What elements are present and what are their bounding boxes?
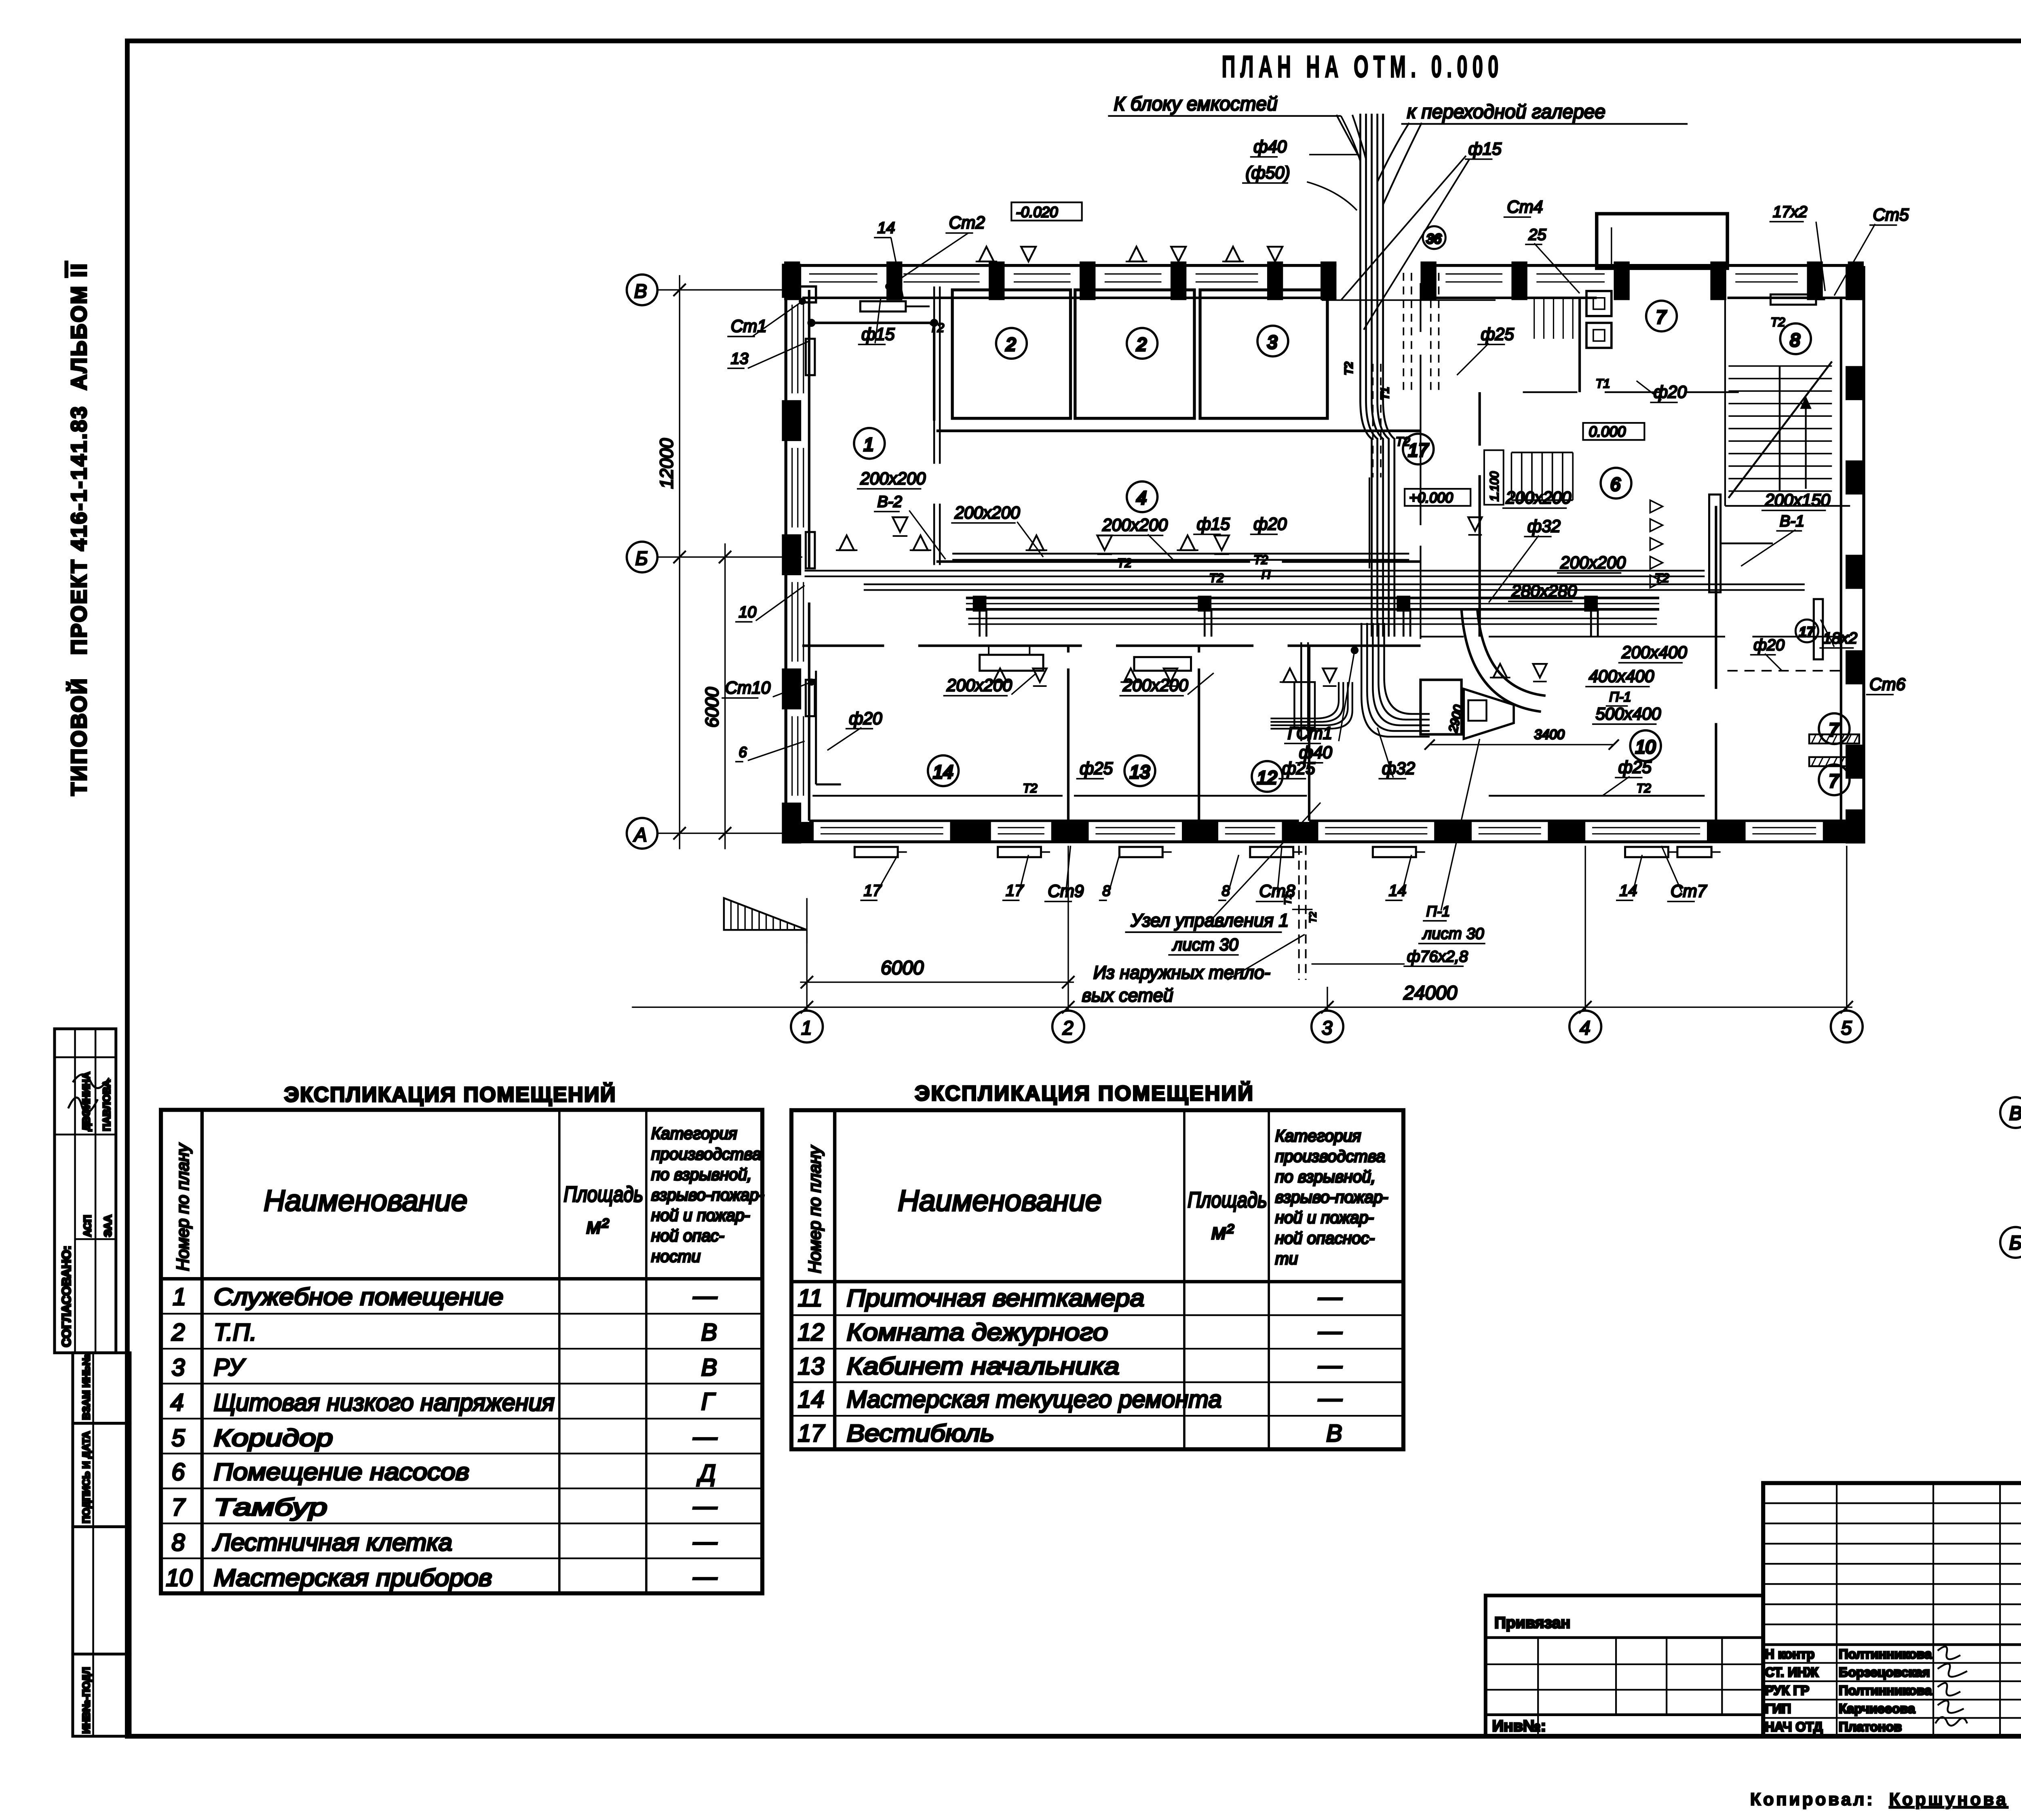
svg-text:200х200: 200х200 bbox=[860, 469, 926, 488]
svg-text:3: 3 bbox=[172, 1354, 185, 1381]
svg-text:4: 4 bbox=[1580, 1018, 1591, 1039]
svg-text:4: 4 bbox=[171, 1389, 184, 1416]
svg-text:7: 7 bbox=[172, 1494, 186, 1520]
svg-text:РУ: РУ bbox=[214, 1354, 246, 1381]
svg-text:Т2: Т2 bbox=[1117, 556, 1132, 570]
svg-text:—: — bbox=[693, 1493, 717, 1520]
svg-text:Т.П.: Т.П. bbox=[214, 1319, 257, 1345]
svg-text:А: А bbox=[633, 824, 647, 846]
svg-text:1: 1 bbox=[173, 1284, 186, 1310]
svg-text:Привязан: Привязан bbox=[1494, 1614, 1570, 1632]
svg-text:НАЧ ОТД: НАЧ ОТД bbox=[1765, 1720, 1823, 1734]
svg-text:2: 2 bbox=[1005, 334, 1016, 355]
svg-text:Ст10: Ст10 bbox=[725, 678, 771, 697]
svg-text:200х150: 200х150 bbox=[1764, 490, 1830, 509]
svg-text:П: П bbox=[1262, 567, 1271, 581]
svg-text:Номер по плану: Номер по плану bbox=[173, 1142, 192, 1271]
svg-text:Полтинникова: Полтинникова bbox=[1839, 1647, 1932, 1662]
svg-text:200х200: 200х200 bbox=[1122, 676, 1188, 695]
svg-text:10: 10 bbox=[1635, 737, 1656, 757]
svg-text:лист 30: лист 30 bbox=[1422, 925, 1484, 943]
svg-text:ной опас-: ной опас- bbox=[651, 1227, 724, 1245]
svg-text:+0.000: +0.000 bbox=[1409, 490, 1453, 506]
svg-text:—: — bbox=[693, 1423, 717, 1450]
svg-text:Т2: Т2 bbox=[1637, 781, 1651, 795]
svg-text:Т2: Т2 bbox=[1655, 571, 1669, 585]
svg-text:Ст5: Ст5 bbox=[1873, 205, 1909, 224]
svg-text:12: 12 bbox=[798, 1319, 825, 1345]
svg-text:200х400: 200х400 bbox=[1621, 643, 1687, 662]
svg-text:500х400: 500х400 bbox=[1595, 704, 1661, 723]
svg-text:Узел управления 1: Узел управления 1 bbox=[1131, 910, 1289, 931]
svg-text:280х280: 280х280 bbox=[1511, 581, 1577, 600]
svg-text:Д: Д bbox=[696, 1460, 716, 1486]
svg-text:ф20: ф20 bbox=[1753, 636, 1785, 654]
svg-text:0.000: 0.000 bbox=[1589, 423, 1626, 440]
svg-text:200х200: 200х200 bbox=[1560, 553, 1626, 572]
svg-text:5: 5 bbox=[172, 1425, 185, 1451]
svg-text:РУК ГР: РУК ГР bbox=[1765, 1683, 1809, 1698]
svg-text:Платонов: Платонов bbox=[1839, 1720, 1902, 1734]
svg-text:17: 17 bbox=[798, 1420, 825, 1447]
svg-text:производства: производства bbox=[1275, 1147, 1385, 1165]
svg-text:17: 17 bbox=[1799, 625, 1815, 640]
svg-text:П-1: П-1 bbox=[1609, 689, 1631, 705]
svg-text:14: 14 bbox=[933, 762, 953, 782]
svg-text:Карчиееова: Карчиееова bbox=[1839, 1702, 1916, 1716]
svg-text:В: В bbox=[701, 1354, 717, 1381]
svg-text:Б: Б bbox=[635, 548, 648, 570]
svg-text:Т2: Т2 bbox=[1396, 434, 1410, 448]
svg-text:по взрывной,: по взрывной, bbox=[651, 1165, 752, 1184]
svg-text:—: — bbox=[1318, 1385, 1342, 1411]
svg-text:Категория: Категория bbox=[1275, 1126, 1361, 1145]
svg-text:11: 11 bbox=[798, 1285, 823, 1311]
svg-text:3400: 3400 bbox=[1534, 727, 1565, 742]
svg-text:12000: 12000 bbox=[656, 438, 677, 489]
svg-text:13: 13 bbox=[1130, 762, 1150, 782]
svg-text:ф15: ф15 bbox=[1468, 139, 1502, 158]
svg-text:Мастерская текущего ремонта: Мастерская текущего ремонта bbox=[847, 1386, 1222, 1413]
svg-text:17: 17 bbox=[1408, 440, 1429, 460]
svg-text:ИНВ№-ПОДЛ: ИНВ№-ПОДЛ bbox=[81, 1667, 92, 1734]
svg-text:Т1: Т1 bbox=[1283, 893, 1293, 905]
svg-text:В: В bbox=[2009, 1103, 2021, 1124]
svg-text:Площадь: Площадь bbox=[1188, 1188, 1267, 1212]
svg-text:—: — bbox=[693, 1528, 717, 1555]
svg-text:10: 10 bbox=[739, 603, 757, 621]
svg-text:8: 8 bbox=[1790, 329, 1800, 350]
svg-text:Приточная венткамера: Приточная венткамера bbox=[847, 1285, 1145, 1311]
svg-text:ф25: ф25 bbox=[1481, 325, 1514, 344]
svg-text:вых сетей: вых сетей bbox=[1082, 985, 1173, 1005]
svg-text:ной и пожар-: ной и пожар- bbox=[651, 1206, 750, 1225]
svg-text:Наименование: Наименование bbox=[898, 1184, 1101, 1217]
svg-text:13: 13 bbox=[798, 1353, 825, 1380]
svg-text:СТ. ИНЖ: СТ. ИНЖ bbox=[1765, 1665, 1818, 1680]
svg-text:14: 14 bbox=[878, 219, 895, 236]
svg-text:14: 14 bbox=[798, 1386, 825, 1413]
svg-text:Копировал: Коршунова: Копировал: Коршунова bbox=[1750, 1790, 2008, 1809]
svg-text:Н контр: Н контр bbox=[1765, 1647, 1814, 1662]
svg-text:2: 2 bbox=[1062, 1018, 1074, 1039]
svg-text:Т1: Т1 bbox=[1379, 387, 1391, 400]
svg-text:взрыво-пожар-: взрыво-пожар- bbox=[651, 1186, 764, 1204]
svg-text:Полтинникова: Полтинникова bbox=[1839, 1683, 1932, 1698]
svg-text:200х200: 200х200 bbox=[946, 676, 1012, 695]
svg-text:Т2: Т2 bbox=[1023, 781, 1037, 795]
svg-text:8: 8 bbox=[172, 1529, 185, 1556]
svg-text:Ст2: Ст2 bbox=[949, 213, 985, 232]
svg-text:ф76х2,8: ф76х2,8 bbox=[1407, 948, 1468, 965]
svg-text:17: 17 bbox=[864, 882, 882, 899]
svg-text:Т2: Т2 bbox=[1770, 315, 1785, 329]
svg-text:Борзецовская: Борзецовская bbox=[1839, 1665, 1930, 1680]
svg-text:3: 3 bbox=[1322, 1018, 1333, 1039]
svg-text:ф40: ф40 bbox=[1253, 137, 1287, 156]
svg-text:Наименование: Наименование bbox=[264, 1184, 467, 1217]
svg-text:7: 7 bbox=[1829, 771, 1840, 791]
svg-text:6: 6 bbox=[739, 744, 747, 760]
svg-text:Т2: Т2 bbox=[1342, 362, 1355, 375]
svg-text:ф15: ф15 bbox=[861, 325, 895, 344]
svg-text:К блоку емкостей: К блоку емкостей bbox=[1114, 93, 1277, 115]
svg-text:Ст6: Ст6 bbox=[1869, 675, 1906, 694]
svg-text:Номер по плану: Номер по плану bbox=[805, 1145, 824, 1273]
svg-text:ной и пожар-: ной и пожар- bbox=[1275, 1208, 1374, 1227]
svg-text:3: 3 bbox=[1267, 332, 1277, 353]
svg-text:Ст4: Ст4 bbox=[1507, 197, 1543, 216]
svg-text:4: 4 bbox=[1137, 488, 1147, 508]
svg-text:1: 1 bbox=[801, 1018, 812, 1039]
svg-text:ф25: ф25 bbox=[1080, 759, 1113, 778]
svg-text:Лестничная клетка: Лестничная клетка bbox=[212, 1529, 452, 1556]
svg-text:м²: м² bbox=[586, 1214, 610, 1238]
svg-text:ной опаснос-: ной опаснос- bbox=[1275, 1229, 1375, 1247]
svg-text:Кабинет начальника: Кабинет начальника bbox=[847, 1353, 1120, 1380]
svg-text:12: 12 bbox=[1257, 767, 1277, 788]
svg-text:ЭКСПЛИКАЦИЯ ПОМЕЩЕНИЙ: ЭКСПЛИКАЦИЯ ПОМЕЩЕНИЙ bbox=[915, 1081, 1258, 1105]
svg-text:—: — bbox=[693, 1563, 717, 1590]
svg-text:В-2: В-2 bbox=[878, 493, 902, 511]
svg-text:ф20: ф20 bbox=[1253, 514, 1287, 533]
svg-text:Помещение насосов: Помещение насосов bbox=[214, 1459, 470, 1485]
svg-text:Щитовая низкого напряжения: Щитовая низкого напряжения bbox=[214, 1389, 555, 1416]
svg-text:6000: 6000 bbox=[702, 687, 722, 728]
svg-text:6: 6 bbox=[172, 1459, 185, 1485]
svg-text:Служебное помещение: Служебное помещение bbox=[214, 1284, 504, 1310]
svg-text:Ст1: Ст1 bbox=[731, 317, 767, 336]
svg-text:ф40: ф40 bbox=[1299, 743, 1333, 762]
svg-text:-0.020: -0.020 bbox=[1016, 204, 1058, 220]
svg-text:В: В bbox=[701, 1319, 717, 1345]
svg-text:17х2: 17х2 bbox=[1773, 203, 1807, 221]
svg-text:200х200: 200х200 bbox=[954, 503, 1020, 522]
svg-text:ТИПОВОЙ ПРОЕКТ 416-1-141.83: ТИПОВОЙ ПРОЕКТ 416-1-141.83 АЛЬБОМ II bbox=[67, 262, 91, 796]
svg-text:(ф50): (ф50) bbox=[1245, 163, 1290, 182]
svg-text:6: 6 bbox=[1610, 474, 1621, 494]
svg-text:6000: 6000 bbox=[881, 957, 924, 979]
svg-text:к переходной галерее: к переходной галерее bbox=[1407, 101, 1605, 122]
svg-text:Тамбур: Тамбур bbox=[214, 1494, 327, 1520]
svg-text:ЭКСПЛИКАЦИЯ ПОМЕЩЕНИЙ: ЭКСПЛИКАЦИЯ ПОМЕЩЕНИЙ bbox=[284, 1083, 620, 1106]
svg-text:В: В bbox=[634, 281, 647, 302]
svg-text:Г: Г bbox=[701, 1388, 716, 1415]
svg-text:Категория: Категория bbox=[651, 1124, 737, 1143]
svg-text:ф25: ф25 bbox=[1618, 758, 1652, 777]
svg-text:—: — bbox=[1318, 1352, 1342, 1379]
svg-text:Площадь: Площадь bbox=[564, 1182, 643, 1206]
svg-text:2: 2 bbox=[171, 1319, 185, 1345]
svg-text:СОГЛАСОВАНО:: СОГЛАСОВАНО: bbox=[59, 1246, 73, 1347]
svg-text:2: 2 bbox=[1136, 334, 1147, 355]
svg-text:18х2: 18х2 bbox=[1823, 629, 1857, 647]
svg-text:ф32: ф32 bbox=[1382, 759, 1415, 778]
svg-text:10: 10 bbox=[166, 1565, 192, 1591]
svg-text:Мастерская приборов: Мастерская приборов bbox=[214, 1565, 492, 1591]
svg-text:Т2: Т2 bbox=[1209, 571, 1224, 585]
svg-text:1.100: 1.100 bbox=[1488, 471, 1501, 501]
svg-text:Комната дежурного: Комната дежурного bbox=[847, 1319, 1108, 1345]
svg-text:Т1: Т1 bbox=[1595, 376, 1610, 391]
svg-text:ПЛАН НА ОТМ. 0.000: ПЛАН НА ОТМ. 0.000 bbox=[1221, 50, 1503, 84]
svg-text:по взрывной,: по взрывной, bbox=[1275, 1168, 1376, 1186]
svg-text:25: 25 bbox=[1528, 226, 1546, 243]
svg-text:24000: 24000 bbox=[1403, 982, 1457, 1004]
svg-text:производства: производства bbox=[651, 1144, 761, 1163]
svg-text:7: 7 bbox=[1829, 720, 1840, 740]
svg-text:ти: ти bbox=[1275, 1249, 1298, 1268]
svg-text:36: 36 bbox=[1426, 231, 1442, 247]
svg-text:ф20: ф20 bbox=[849, 709, 882, 728]
svg-text:Инв№:: Инв№: bbox=[1492, 1717, 1546, 1735]
svg-text:ПОДПИСЬ И ДАТА: ПОДПИСЬ И ДАТА bbox=[81, 1431, 92, 1523]
svg-text:взрыво-пожар-: взрыво-пожар- bbox=[1275, 1188, 1388, 1206]
svg-text:Коридор: Коридор bbox=[214, 1425, 333, 1451]
svg-text:В-1: В-1 bbox=[1780, 512, 1804, 530]
svg-text:м²: м² bbox=[1211, 1220, 1234, 1244]
svg-text:ВЗАМ ИНЬ№: ВЗАМ ИНЬ№ bbox=[81, 1354, 92, 1420]
svg-text:400х400: 400х400 bbox=[1589, 667, 1654, 686]
svg-text:Б: Б bbox=[2009, 1232, 2021, 1254]
svg-text:Ст7: Ст7 bbox=[1671, 882, 1707, 901]
svg-text:200х200: 200х200 bbox=[1505, 488, 1571, 507]
svg-text:ности: ности bbox=[651, 1247, 700, 1265]
svg-text:—: — bbox=[1318, 1284, 1342, 1310]
svg-text:Из наружных тепло-: Из наружных тепло- bbox=[1093, 962, 1270, 983]
svg-text:—: — bbox=[1318, 1318, 1342, 1345]
svg-text:ГИП: ГИП bbox=[1765, 1702, 1791, 1716]
svg-text:1: 1 bbox=[864, 434, 874, 455]
svg-text:Вестибюль: Вестибюль bbox=[847, 1420, 995, 1447]
svg-text:П-1: П-1 bbox=[1426, 903, 1450, 919]
svg-text:13: 13 bbox=[731, 350, 749, 367]
svg-text:ф32: ф32 bbox=[1527, 517, 1561, 536]
svg-text:ГСт1: ГСт1 bbox=[1288, 724, 1333, 743]
svg-text:Т2: Т2 bbox=[1253, 553, 1268, 567]
svg-text:—: — bbox=[693, 1282, 717, 1309]
svg-text:Т2: Т2 bbox=[1308, 912, 1319, 923]
svg-text:5: 5 bbox=[1841, 1018, 1852, 1039]
svg-text:ПАВЛОВА: ПАВЛОВА bbox=[101, 1080, 113, 1131]
svg-text:В: В bbox=[1326, 1420, 1342, 1447]
svg-text:7: 7 bbox=[1656, 307, 1667, 327]
svg-text:Т2: Т2 bbox=[930, 321, 944, 335]
svg-text:200х200: 200х200 bbox=[1102, 515, 1168, 534]
svg-text:ф15: ф15 bbox=[1197, 514, 1230, 533]
svg-text:лист 30: лист 30 bbox=[1172, 935, 1239, 954]
